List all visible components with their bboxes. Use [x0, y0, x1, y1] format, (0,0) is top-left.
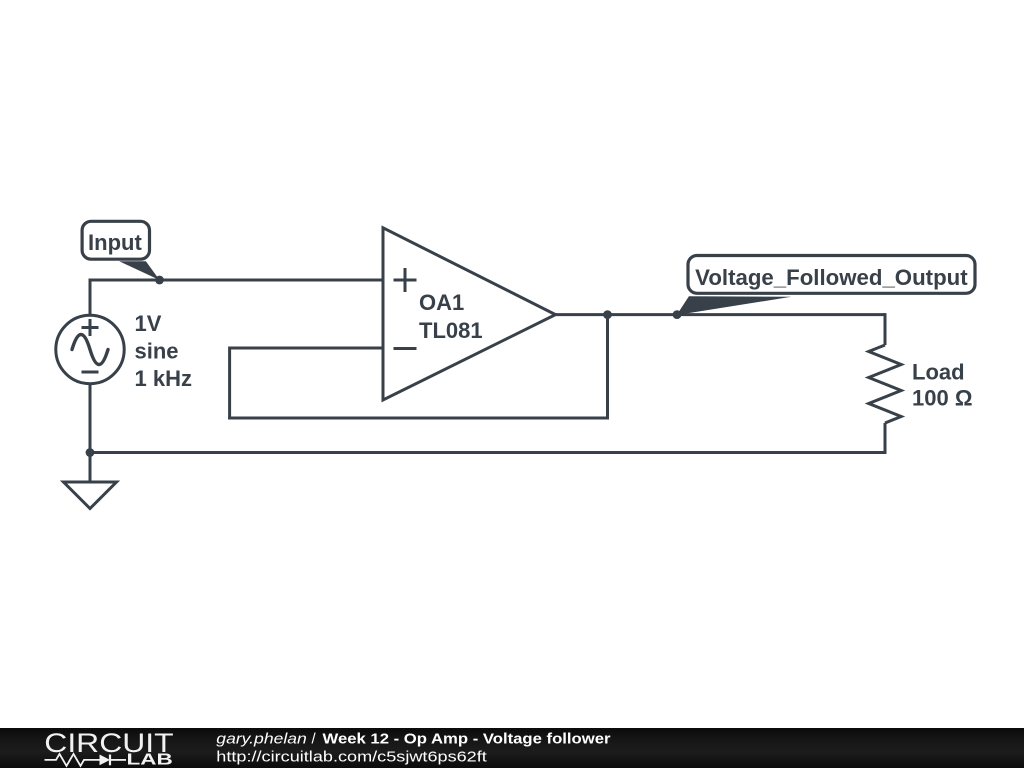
footer bar — [0, 728, 1024, 768]
svg-text:LAB: LAB — [127, 752, 173, 768]
svg-text:Load: Load — [912, 360, 965, 385]
node: ground rail junction — [86, 448, 95, 457]
svg-text:TL081: TL081 — [419, 318, 483, 343]
net flag Input — [82, 221, 159, 280]
svg-text:1 kHz: 1 kHz — [135, 366, 192, 391]
wire: source top lead — [89, 279, 92, 316]
wire: inverting input — [230, 347, 383, 350]
net flag Voltage_Followed_Output — [677, 256, 975, 316]
logo resistor-diode glyph — [45, 754, 127, 766]
wire: feedback down — [606, 315, 609, 418]
svg-text:Voltage_Followed_Output: Voltage_Followed_Output — [695, 265, 968, 290]
svg-text:Input: Input — [88, 230, 142, 255]
wire: resistor bottom lead — [884, 423, 887, 454]
wire: resistor top lead — [884, 313, 887, 345]
wire: ground rail — [90, 451, 887, 454]
wire: feedback bottom — [228, 417, 609, 420]
node: feedback junction — [603, 310, 612, 319]
voltage source V1 — [56, 315, 124, 383]
svg-text:sine: sine — [135, 339, 179, 364]
wire: top input net — [90, 279, 383, 282]
node: input flag junction — [155, 276, 164, 285]
wire: feedback up — [228, 347, 231, 420]
node: output flag junction — [673, 310, 682, 319]
svg-text:OA1: OA1 — [419, 290, 464, 315]
wire: source bottom lead — [89, 385, 92, 481]
svg-text:100 Ω: 100 Ω — [912, 386, 972, 411]
label V1 value: 1V sine 1 kHz — [135, 311, 192, 391]
svg-text:Week 12 - Op Amp - Voltage fol: Week 12 - Op Amp - Voltage follower — [323, 731, 611, 748]
op-amp OA1 — [383, 228, 556, 400]
ground — [64, 482, 117, 509]
svg-text:gary.phelan: gary.phelan — [216, 731, 306, 748]
wire: output net — [556, 313, 886, 316]
svg-text:1V: 1V — [135, 311, 162, 336]
svg-text:http://circuitlab.com/c5sjwt6p: http://circuitlab.com/c5sjwt6ps62ft — [216, 749, 487, 766]
resistor Load — [869, 345, 902, 423]
